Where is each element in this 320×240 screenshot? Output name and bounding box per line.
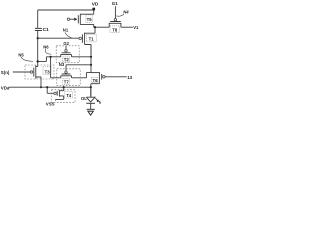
dashed box T3 (25, 65, 54, 79)
capacitor C1 (35, 28, 42, 30)
junction data line T4 gate (46, 86, 48, 88)
svg-text:T3: T3 (45, 69, 51, 74)
svg-text:T5: T5 (87, 17, 93, 22)
T7 gate bubble (65, 71, 67, 73)
wire VDD top rail (38, 9, 94, 11)
wire OLED cathode down (90, 103, 92, 109)
svg-text:C1: C1 (43, 27, 49, 33)
leader N6 (46, 49, 52, 54)
wire T6 top stub (91, 72, 99, 74)
T4 gate bubble (54, 92, 56, 94)
svg-text:V1: V1 (133, 25, 139, 30)
svg-text:N1: N1 (63, 28, 69, 33)
wire T8 leads (109, 23, 121, 27)
wire T7 right jog to main vertical (72, 73, 92, 78)
wire T2 right to main vertical (72, 56, 92, 58)
transistor T6 (99, 72, 101, 81)
T5 gate bubble terminal (67, 18, 69, 20)
dashed box T2 (56, 46, 79, 63)
label box T4 (65, 92, 73, 98)
wire T3 drain up (36, 61, 38, 66)
label box T3 (43, 67, 51, 74)
wire T4 drain up (59, 87, 63, 91)
leader N4 (116, 14, 124, 16)
svg-text:13: 13 (127, 75, 132, 80)
wire OLED anode (90, 87, 92, 97)
wire T5-T8 connector (94, 26, 110, 28)
transistor T7 (60, 74, 71, 76)
junction data line T4 drain (63, 86, 65, 88)
junction node at C1 tap (37, 37, 39, 39)
svg-text:T7: T7 (64, 80, 70, 85)
svg-text:OL: OL (81, 96, 87, 101)
svg-text:T8: T8 (112, 28, 118, 33)
junction T7 gate net (90, 64, 92, 66)
wire T2 left to staircase (38, 57, 61, 62)
OLED emission arrow 1 (95, 98, 98, 101)
label box T7 (63, 79, 70, 85)
arrowhead OLED 2 (99, 102, 101, 104)
label box T8 (110, 26, 119, 33)
wire T1 source down (85, 45, 91, 57)
OLED cathode bar (86, 102, 95, 104)
wire T1 drain up (85, 27, 95, 33)
svg-text:G1: G1 (112, 1, 118, 6)
label box T5 (86, 15, 92, 23)
transistor T2 (60, 53, 71, 55)
wire T5 source (80, 24, 93, 27)
ground bar (87, 108, 95, 110)
wire T7 leads (61, 76, 72, 78)
wire T8 right terminal (121, 26, 133, 28)
junction T2 right (90, 56, 92, 58)
svg-text:G2: G2 (63, 41, 69, 46)
diode OLED (86, 97, 95, 102)
svg-text:N6: N6 (43, 45, 49, 50)
wire C1 bottom to node A (37, 31, 39, 62)
wire T2 gate drop (65, 46, 67, 50)
junction node B (50, 56, 52, 58)
svg-text:VSS: VSS (46, 102, 55, 107)
wire T4 source to VSS (56, 96, 64, 101)
svg-text:VDa: VDa (1, 86, 10, 91)
transistor T5 (70, 14, 81, 25)
dashed box T4 (52, 90, 76, 103)
transistor T1 (82, 33, 84, 45)
wire left drop to C1 (37, 10, 39, 28)
label box T1 (86, 34, 96, 42)
svg-text:T1: T1 (89, 36, 95, 41)
wire T2 leads (61, 55, 72, 57)
OLED emission arrow 2 (98, 100, 101, 103)
svg-text:T6: T6 (93, 78, 99, 83)
transistor T3 (34, 65, 36, 79)
wire S(n) gate line (13, 71, 31, 73)
T2 gate bubble (65, 50, 67, 52)
wire T7 gate up and right (66, 65, 91, 71)
wire node B down to T7 (51, 57, 61, 78)
wire T8 gate vertical (114, 6, 116, 18)
wire T4 gate staircase (47, 87, 54, 93)
transistor T8 (109, 22, 122, 24)
wire data line bottom (9, 86, 91, 88)
junction dot VDD (92, 8, 95, 11)
svg-text:S(n): S(n) (1, 70, 10, 75)
junction data line T3 (40, 86, 42, 88)
svg-text:N5: N5 (18, 52, 24, 57)
T3 gate bubble (30, 71, 32, 73)
wire T6 gate right (105, 76, 127, 78)
wire main vertical (90, 45, 92, 73)
svg-text:N4: N4 (123, 9, 129, 14)
junction T1 drain (94, 26, 96, 28)
leader N1 (65, 32, 72, 37)
svg-text:N3: N3 (59, 62, 65, 67)
transistor T4 (57, 90, 59, 97)
wire T3 source down (36, 77, 41, 87)
svg-text:T2: T2 (64, 57, 70, 62)
ground triangle (88, 111, 93, 115)
svg-text:T4: T4 (66, 93, 72, 98)
junction node A (37, 60, 39, 62)
T8 gate bubble (114, 19, 116, 21)
label box T2 (63, 57, 70, 62)
label box T6 (92, 77, 98, 82)
junction OLED anode (90, 86, 92, 88)
wire T1 gate net (38, 37, 79, 39)
arrowhead T5 gate (74, 18, 77, 21)
arrowhead OLED 1 (97, 100, 99, 102)
T1 gate bubble (79, 37, 82, 40)
dashed box T7 (57, 69, 80, 86)
leader N5 (21, 57, 33, 61)
wire T6 source down (91, 81, 100, 97)
wire T5 drain (80, 9, 93, 14)
T6 gate bubble (103, 76, 106, 79)
svg-text:VD: VD (92, 2, 99, 8)
